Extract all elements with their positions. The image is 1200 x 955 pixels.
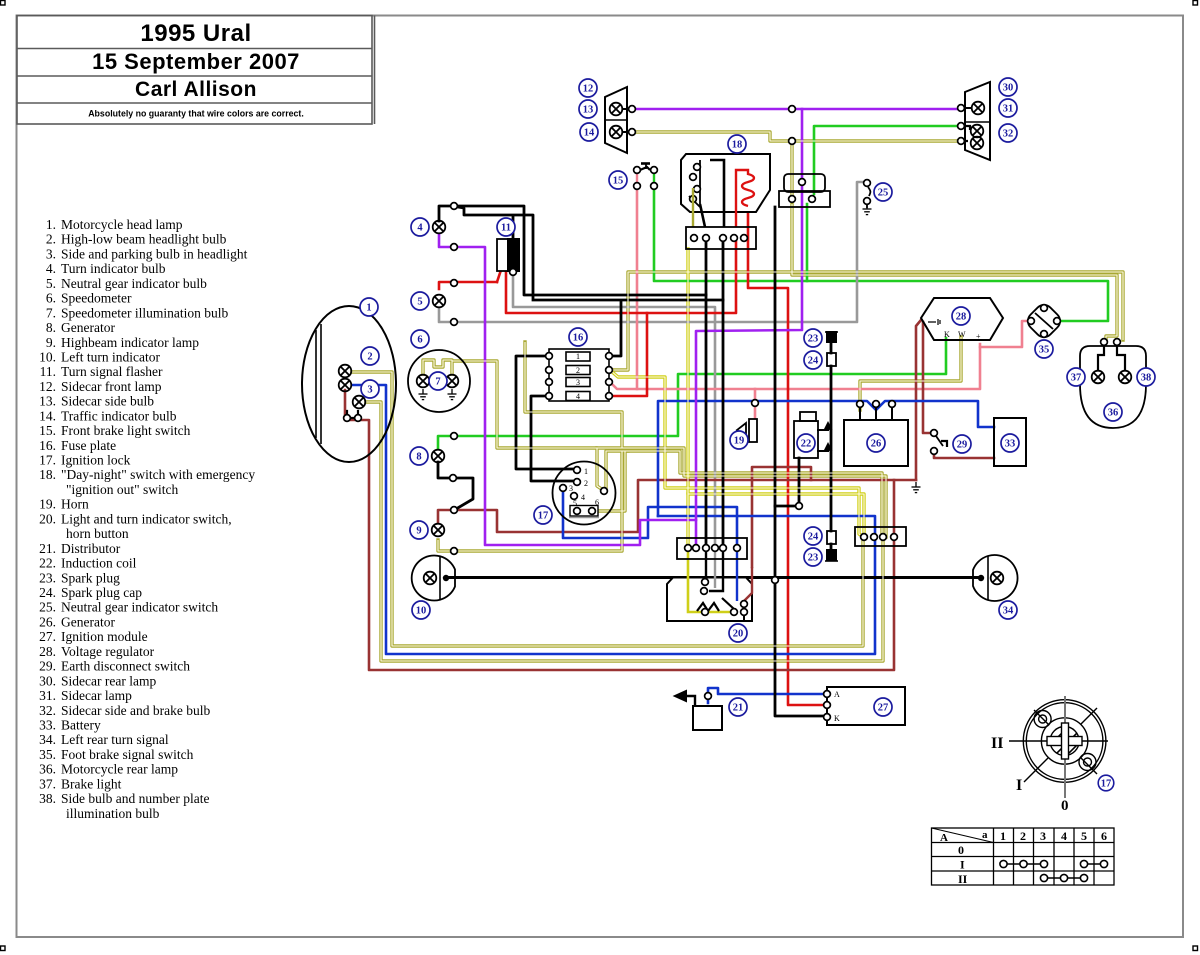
voltage regulator 28 [921, 298, 1003, 341]
ref circle 10 [412, 601, 430, 619]
bulb 8 generator lamp [432, 450, 445, 463]
svg-text:21.: 21. [39, 541, 56, 556]
wire red flasher to day-night switch 18 [439, 240, 736, 313]
svg-text:29: 29 [957, 440, 968, 451]
svg-text:Speedometer illumination bulb: Speedometer illumination bulb [61, 305, 228, 320]
svg-text:24: 24 [808, 356, 819, 367]
wire pink horn drop [754, 389, 757, 418]
bulb 7 speedo illumination left [417, 375, 430, 400]
ref circle 31 [999, 99, 1017, 117]
svg-text:16: 16 [573, 333, 584, 344]
spark plug 23 top [825, 332, 838, 342]
svg-text:19.: 19. [39, 497, 56, 512]
wire darkred earth switch to battery [934, 453, 994, 458]
ref circle 18 [728, 135, 746, 153]
ref circle 24 [804, 527, 822, 545]
svg-text:36: 36 [1108, 408, 1119, 419]
svg-text:Neutral gear indicator bulb: Neutral gear indicator bulb [61, 276, 207, 291]
svg-text:5: 5 [417, 297, 422, 308]
foot brake switch 35 [1024, 301, 1064, 341]
wire khaki top pair b (relay to rear lamp 36) [792, 204, 1117, 341]
distributor 21 [675, 691, 722, 730]
wire yellow fuse 2 lower branch to connector [610, 370, 864, 537]
svg-text:Neutral gear indicator switch: Neutral gear indicator switch [61, 600, 218, 615]
svg-text:Motorcycle rear lamp: Motorcycle rear lamp [61, 762, 178, 777]
svg-text:20.: 20. [39, 511, 56, 526]
svg-text:1.: 1. [46, 217, 56, 232]
svg-text:8: 8 [416, 452, 421, 463]
svg-text:2: 2 [576, 366, 580, 375]
svg-text:II: II [958, 872, 968, 886]
ref circle 14 [580, 123, 598, 141]
ref circle 11 [497, 218, 515, 236]
svg-text:Ignition module: Ignition module [61, 629, 148, 644]
svg-text:Battery: Battery [61, 718, 101, 733]
svg-text:35: 35 [1039, 345, 1050, 356]
svg-text:K: K [834, 714, 840, 723]
speedometer 6 [408, 350, 470, 412]
ref circle 12 [579, 79, 597, 97]
wire black high tension lead [830, 341, 833, 550]
ref circle 33 [1001, 434, 1019, 452]
svg-text:Brake light: Brake light [61, 776, 122, 791]
svg-text:18: 18 [732, 140, 743, 151]
wire pink front brake switch leg [636, 188, 639, 389]
wire khaki 451 line to connector [628, 451, 882, 537]
ref circle 30 [999, 78, 1017, 96]
svg-text:0: 0 [1061, 798, 1069, 814]
svg-text:25.: 25. [39, 600, 56, 615]
wire green front brake switch 15 to foot brake switch 35 [654, 188, 1108, 321]
svg-text:I: I [1016, 777, 1022, 794]
svg-text:0: 0 [958, 843, 964, 857]
ref circle 4 [411, 218, 429, 236]
wire blue lock pin 3 to switch 20 connector [563, 491, 737, 548]
ref circle 16 [569, 328, 587, 346]
svg-text:30.: 30. [39, 673, 56, 688]
spark plug cap 24 top [827, 353, 836, 366]
svg-text:2: 2 [584, 479, 588, 488]
svg-text:Sidecar side and brake bulb: Sidecar side and brake bulb [61, 703, 210, 718]
ignition lock face 17 [1009, 696, 1108, 798]
wire gray neutral bulb 5 to neutral switch 25 [439, 182, 863, 322]
svg-text:Turn indicator bulb: Turn indicator bulb [61, 261, 166, 276]
svg-text:3: 3 [576, 378, 580, 387]
horn 19 [737, 419, 757, 442]
svg-text:22: 22 [801, 439, 812, 450]
fuse plate 16 [546, 349, 613, 401]
bulb 13 sidecar front [610, 103, 636, 116]
svg-text:11: 11 [501, 223, 511, 234]
wire red branch to fuse 4 [612, 313, 647, 396]
svg-text:19: 19 [734, 436, 745, 447]
title box [17, 16, 375, 125]
wire darkred headlamp loop to connector [345, 390, 894, 670]
svg-text:2: 2 [367, 352, 372, 363]
svg-text:Sidecar side bulb: Sidecar side bulb [61, 394, 154, 409]
svg-text:Voltage regulator: Voltage regulator [61, 644, 155, 659]
REFS [360, 78, 1155, 791]
ref circle 20 [729, 624, 747, 642]
wire yellow 18-connector pin1 drop to switch 20 [688, 249, 864, 537]
svg-text:3: 3 [569, 484, 573, 493]
bulb 5 neutral indicator [433, 295, 446, 308]
selection handle top-left [1, 1, 6, 6]
ref circle 21 [729, 698, 747, 716]
bulb 32 sidecar side and brake [958, 123, 984, 150]
bulb 31 sidecar lamp [958, 102, 985, 115]
ref circle 3 [361, 380, 379, 398]
svg-text:Spark plug: Spark plug [61, 570, 120, 585]
wire khaki regulator W to generator [860, 337, 961, 410]
svg-text:W: W [958, 330, 966, 339]
svg-text:3: 3 [367, 385, 372, 396]
svg-text:38.: 38. [39, 791, 56, 806]
switch 20 light and turn [667, 548, 752, 621]
svg-text:3.: 3. [46, 246, 56, 261]
wire black second turn line to fuse 1 [452, 206, 723, 356]
wire gray flasher to switch 20 connector [513, 272, 715, 548]
svg-text:High-low beam headlight bulb: High-low beam headlight bulb [61, 232, 227, 247]
day-night switch 18 [681, 154, 770, 227]
neutral gear switch 25 [863, 180, 872, 215]
contact table [932, 828, 1115, 886]
wire darkred switch chain to right trunk [454, 480, 916, 532]
svg-text:Ignition lock: Ignition lock [61, 453, 131, 468]
svg-text:Distributor: Distributor [61, 541, 121, 556]
wire black turn bulb 4 to foot brake switch 35 [439, 206, 706, 295]
svg-text:26.: 26. [39, 614, 56, 629]
svg-text:5.: 5. [46, 276, 56, 291]
svg-text:12.: 12. [39, 379, 56, 394]
svg-text:Generator: Generator [61, 320, 115, 335]
svg-text:10: 10 [416, 606, 427, 617]
wire black coil taps [818, 430, 828, 451]
svg-text:37: 37 [1071, 373, 1082, 384]
svg-text:32.: 32. [39, 703, 56, 718]
wire black generator bulb 8 switch chain [438, 462, 473, 509]
svg-text:Front brake light switch: Front brake light switch [61, 423, 191, 438]
svg-text:35.: 35. [39, 747, 56, 762]
svg-text:Generator: Generator [61, 614, 115, 629]
svg-text:Side bulb and number plate: Side bulb and number plate [61, 791, 209, 806]
ref circle 22 [797, 434, 815, 452]
svg-text:Light and turn indicator switc: Light and turn indicator switch, [61, 511, 232, 526]
ref circle 17 [534, 506, 552, 524]
svg-text:7.: 7. [46, 305, 56, 320]
svg-text:15 September 2007: 15 September 2007 [92, 49, 300, 74]
svg-text:1: 1 [576, 352, 580, 361]
sidecar rear trapezoid 30 [965, 82, 990, 160]
bulb 14 sidecar indicator [610, 126, 636, 139]
ref circle 38 [1137, 368, 1155, 386]
wire black 18 connector pin2 drop to 20 connector [705, 240, 708, 548]
bulb 7 speedo illumination right [446, 375, 459, 400]
right rear turn signal 34 [973, 555, 1018, 601]
ref circle 28 [952, 307, 970, 325]
front brake switch 15 [634, 164, 658, 190]
wire black fuse 1 to lock pin 1 [516, 356, 573, 469]
wire black turn indicator 10 to 34 line [446, 576, 981, 579]
svg-text:6: 6 [1101, 829, 1107, 843]
svg-text:34: 34 [1003, 606, 1014, 617]
svg-text:23: 23 [808, 334, 819, 345]
ref circle 25 [874, 183, 892, 201]
wire khaki sidecar lamp 14 feed [636, 132, 963, 141]
induction coil 22 [794, 412, 831, 458]
connector under 18 [686, 227, 756, 249]
svg-text:17: 17 [1101, 779, 1112, 790]
headlight relay [779, 174, 830, 207]
wire khaki parking bulb 3 loop to connector [366, 402, 883, 661]
wire green generator bulb 8 to regulator K [438, 338, 946, 448]
wire purple drop to switch 20 connector [696, 109, 802, 548]
svg-text:K: K [944, 330, 950, 339]
ref circle 1 [360, 298, 378, 316]
svg-text:32: 32 [1003, 129, 1014, 140]
svg-text:13: 13 [583, 105, 594, 116]
svg-text:23.: 23. [39, 570, 56, 585]
svg-text:I: I [960, 858, 965, 872]
ignition module 27 [824, 687, 905, 725]
connector under 20 [677, 538, 747, 559]
svg-text:37.: 37. [39, 776, 56, 791]
svg-text:Fuse plate: Fuse plate [61, 438, 116, 453]
svg-text:14.: 14. [39, 408, 56, 423]
svg-text:Traffic indicator bulb: Traffic indicator bulb [61, 408, 177, 423]
svg-text:30: 30 [1003, 83, 1014, 94]
wire khaki speedometer loop to ignition lock pin 6 [423, 360, 603, 490]
ref circle 27 [874, 698, 892, 716]
svg-text:Earth disconnect switch: Earth disconnect switch [61, 659, 190, 674]
wire purple sidecar front lamp 13 line [636, 108, 963, 111]
svg-text:"ignition out" switch: "ignition out" switch [66, 482, 179, 497]
wire blue headlight bulb 2 loop to connector [352, 385, 875, 654]
svg-text:Highbeam indicator lamp: Highbeam indicator lamp [61, 335, 199, 350]
ref circle 13 [579, 100, 597, 118]
spark plug 23 bottom [825, 550, 838, 561]
svg-text:31: 31 [1003, 104, 1014, 115]
svg-text:Carl Allison: Carl Allison [135, 78, 257, 101]
ref circle 23 [804, 329, 822, 347]
svg-text:a: a [982, 829, 988, 841]
svg-text:6.: 6. [46, 291, 56, 306]
ref circle 6 [411, 330, 429, 348]
svg-text:14: 14 [584, 128, 595, 139]
ref circle 5 [411, 292, 429, 310]
svg-text:Speedometer: Speedometer [61, 291, 132, 306]
svg-text:horn button: horn button [66, 526, 129, 541]
svg-text:1: 1 [366, 303, 371, 314]
ref circle 7 [429, 372, 447, 390]
svg-text:6: 6 [417, 335, 422, 346]
left turn indicator 10 [412, 555, 455, 600]
svg-text:20: 20 [733, 629, 744, 640]
wire black flasher hanger [512, 216, 515, 239]
svg-text:24: 24 [808, 532, 819, 543]
wire black parking bulb ground jog [347, 411, 358, 418]
headlamp shell 1 [302, 306, 396, 462]
svg-text:12: 12 [583, 84, 594, 95]
svg-text:1: 1 [1000, 829, 1006, 843]
svg-text:17.: 17. [39, 453, 56, 468]
svg-text:Sidecar rear lamp: Sidecar rear lamp [61, 673, 156, 688]
sidecar front trapezoid 12 [605, 87, 627, 153]
khaki wire cores [352, 132, 1123, 661]
wire khaki relay leg [790, 141, 793, 196]
wire khaki lock pin6 second riser [606, 451, 628, 490]
ref circle 37 [1067, 368, 1085, 386]
selection handle bottom-left [1, 946, 6, 951]
wire green sidecar lamp to relay [814, 126, 963, 194]
wire darkred to highbeam bulb 9 [438, 510, 452, 522]
generator 26 [844, 401, 908, 466]
wire khaki fuse area riser [525, 342, 622, 448]
ref circle 34 [999, 601, 1017, 619]
svg-text:4.: 4. [46, 261, 56, 276]
svg-text:4: 4 [1061, 829, 1067, 843]
svg-text:+: + [976, 332, 981, 341]
wire red flasher bottom stub [497, 270, 501, 282]
svg-text:25: 25 [878, 188, 889, 199]
svg-text:A: A [940, 832, 948, 844]
svg-text:4: 4 [576, 392, 580, 401]
wire blue trunk to four pin connector [658, 516, 875, 537]
wire pink fuse 3 to regulator plus [610, 344, 980, 389]
wire purple turn bulb 4 to trunk [439, 234, 696, 545]
svg-text:15: 15 [613, 176, 624, 187]
svg-text:10.: 10. [39, 350, 56, 365]
wire yellow branch into 20 connector [686, 494, 689, 548]
svg-text:28.: 28. [39, 644, 56, 659]
svg-text:Sidecar front lamp: Sidecar front lamp [61, 379, 162, 394]
svg-text:27.: 27. [39, 629, 56, 644]
svg-text:Foot brake signal switch: Foot brake signal switch [61, 747, 194, 762]
svg-text:31.: 31. [39, 688, 56, 703]
wire darkred regulator to earth switch 29 [923, 322, 931, 433]
wire khaki lock 448 line to connector [597, 448, 886, 537]
wire darkred regulator ground drop [894, 320, 921, 537]
ref circle 29 [953, 435, 971, 453]
svg-text:Horn: Horn [61, 497, 89, 512]
ref circle 35 [1035, 340, 1053, 358]
ref circle 24 [804, 351, 822, 369]
svg-text:Sidecar lamp: Sidecar lamp [61, 688, 132, 703]
svg-text:28: 28 [956, 312, 967, 323]
svg-text:9.: 9. [46, 335, 56, 350]
wire red coil of 18 down to ignition module [748, 206, 824, 705]
svg-text:Motorcycle head lamp: Motorcycle head lamp [61, 217, 183, 232]
svg-text:2.: 2. [46, 232, 56, 247]
svg-text:24.: 24. [39, 585, 56, 600]
svg-text:Left rear turn signal: Left rear turn signal [61, 732, 169, 747]
ref circle 23 [804, 548, 822, 566]
ref circle 26 [867, 434, 885, 452]
svg-text:4: 4 [581, 493, 585, 502]
ref circle 2 [361, 347, 379, 365]
svg-text:11.: 11. [40, 364, 56, 379]
svg-text:2: 2 [1020, 829, 1026, 843]
LEGEND [39, 217, 255, 821]
wire green relay to brake switch line [806, 204, 809, 281]
ref circle 8 [410, 447, 428, 465]
svg-text:29.: 29. [39, 659, 56, 674]
spark plug cap 24 bottom [827, 531, 836, 544]
wire blue riser to generator and battery [658, 401, 994, 516]
battery 33 [994, 418, 1026, 466]
svg-text:illumination bulb: illumination bulb [66, 806, 160, 821]
bulb 3 parking [353, 396, 366, 409]
svg-text:38: 38 [1141, 373, 1152, 384]
LOCK DETAIL AND TABLE [932, 696, 1115, 886]
wire black fuse 4 to lock pin 2 [531, 396, 573, 481]
ignition lock 17 [553, 462, 616, 525]
TITLE_BLOCK [17, 16, 375, 125]
wire junction nodes [344, 106, 803, 584]
svg-text:22.: 22. [39, 556, 56, 571]
svg-text:A: A [834, 690, 840, 699]
motorcycle rear lamp 36 [1080, 339, 1146, 428]
ref circle 32 [999, 124, 1017, 142]
ref circle 9 [410, 521, 428, 539]
selection handle bottom-right [1193, 946, 1198, 951]
svg-text:3: 3 [1040, 829, 1046, 843]
svg-text:21: 21 [733, 703, 744, 714]
four pin connector [855, 527, 906, 546]
svg-text:33.: 33. [39, 718, 56, 733]
flasher 11 [497, 239, 519, 271]
ref circle 17 [1098, 775, 1114, 791]
svg-text:16.: 16. [39, 438, 56, 453]
bulb 9 highbeam lamp [432, 524, 445, 537]
wire khaki headlight bulb 2 loop to connector [352, 372, 863, 646]
wire pink branch to foot brake switch 35 [980, 321, 1033, 347]
svg-text:13.: 13. [39, 394, 56, 409]
svg-text:"Day-night" switch with emerge: "Day-night" switch with emergency [61, 467, 255, 482]
svg-text:Turn signal flasher: Turn signal flasher [61, 364, 163, 379]
wire black 18 connector pin3 drop [722, 240, 725, 548]
svg-text:Spark plug cap: Spark plug cap [61, 585, 142, 600]
wire khaki lock bracket exit [595, 451, 625, 511]
svg-text:33: 33 [1005, 439, 1016, 450]
svg-text:18.: 18. [39, 467, 56, 482]
svg-text:Left turn indicator: Left turn indicator [61, 350, 160, 365]
wire black coil left pin drop [775, 458, 799, 506]
svg-text:17: 17 [538, 511, 549, 522]
svg-text:Induction coil: Induction coil [61, 556, 137, 571]
svg-text:1995 Ural: 1995 Ural [140, 20, 251, 47]
svg-text:15.: 15. [39, 423, 56, 438]
svg-text:Side and parking bulb in headl: Side and parking bulb in headlight [61, 246, 248, 261]
svg-text:26: 26 [871, 439, 882, 450]
svg-text:36.: 36. [39, 762, 56, 777]
ref circle 19 [730, 431, 748, 449]
selection handle top-right [1193, 1, 1198, 6]
earth disconnect switch 29 [931, 430, 947, 455]
ground near regulator [912, 482, 921, 493]
svg-text:Absolutely no guaranty that wi: Absolutely no guaranty that wire colors … [88, 109, 304, 119]
svg-text:II: II [991, 735, 1003, 752]
svg-text:23: 23 [808, 553, 819, 564]
bulb 4 turn indicator [433, 221, 446, 234]
ref circle 36 [1104, 403, 1122, 421]
bulb 2 high-low beam [339, 365, 352, 392]
svg-text:5: 5 [1081, 829, 1087, 843]
svg-text:8.: 8. [46, 320, 56, 335]
svg-text:1: 1 [584, 467, 588, 476]
svg-text:4: 4 [417, 223, 423, 234]
svg-text:34.: 34. [39, 732, 56, 747]
